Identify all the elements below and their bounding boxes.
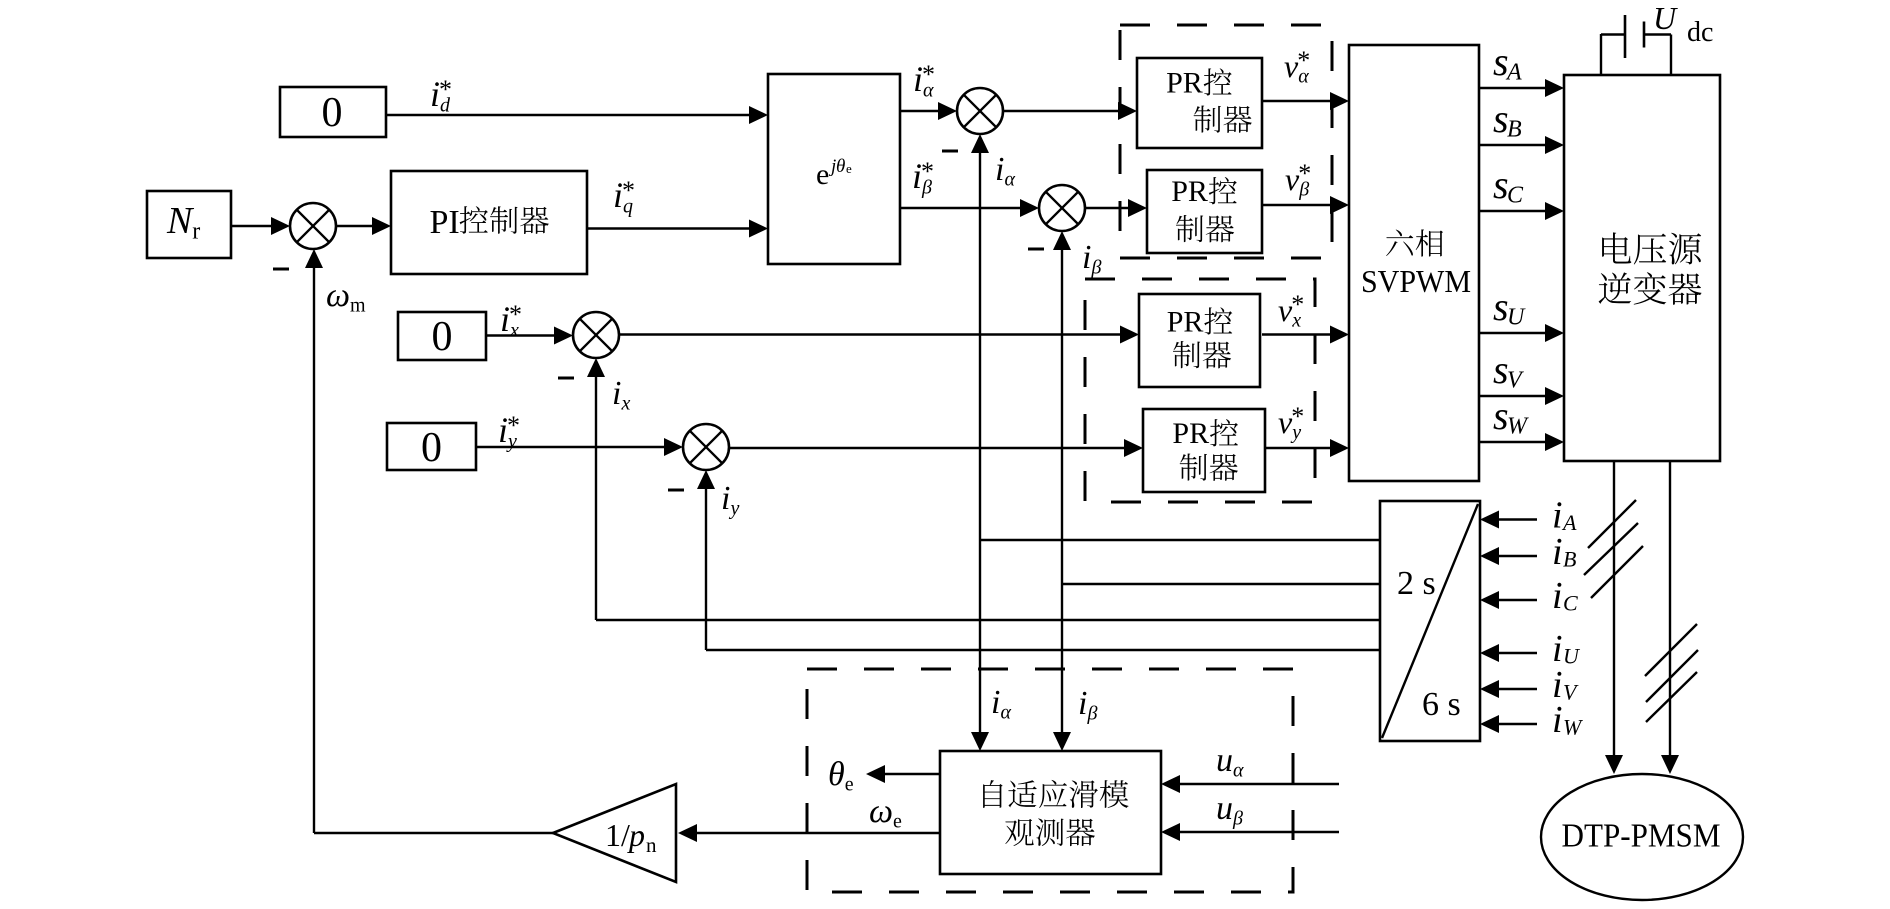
svg-text:i: i <box>1552 699 1563 741</box>
svg-text:θ: θ <box>828 756 845 793</box>
svg-text:0: 0 <box>432 314 453 360</box>
summing junction S1 speed error <box>290 203 336 249</box>
svg-text:A: A <box>1505 60 1522 86</box>
svg-text:ω: ω <box>869 793 893 830</box>
svg-text:U: U <box>1653 0 1678 36</box>
svg-text:N: N <box>166 200 195 242</box>
svg-text:i: i <box>1552 531 1563 573</box>
svg-text:DTP-PMSM: DTP-PMSM <box>1562 818 1721 855</box>
wire v_y* PR y to SVPWM <box>1266 439 1349 457</box>
node i_d* label <box>430 74 452 117</box>
svg-text:r: r <box>192 219 200 245</box>
node i_beta observer input label <box>1078 685 1098 725</box>
wire i_beta feedback from 2s/6s to vertical <box>1062 583 1380 585</box>
svg-text:p: p <box>627 817 645 853</box>
node u_beta label <box>1216 790 1243 830</box>
wire i_x feedback from 2s/6s to vertical <box>596 619 1380 621</box>
svg-text:*: * <box>1291 402 1304 431</box>
wire phase current i_A into 2s/6s block <box>1480 511 1537 529</box>
svg-text:i: i <box>1078 685 1087 722</box>
svg-text:m: m <box>350 295 366 317</box>
wire inverter second winding set to motor <box>1661 461 1679 774</box>
node i_alpha feedback label <box>995 151 1016 191</box>
svg-text:i: i <box>995 151 1004 188</box>
svg-text:A: A <box>1561 510 1577 535</box>
svg-text:α: α <box>1001 702 1012 724</box>
svg-text:0: 0 <box>421 425 442 471</box>
svg-text:PR: PR <box>1167 305 1204 338</box>
node i_x feedback label <box>612 375 631 415</box>
svg-text:i: i <box>721 480 730 517</box>
wire i_q* from PI controller to e^jtheta block <box>587 220 768 238</box>
node omega_m label <box>326 277 366 317</box>
wire phase current i_C into 2s/6s block <box>1480 591 1537 609</box>
svg-text:B: B <box>1563 547 1576 572</box>
svg-text:U: U <box>1507 305 1526 331</box>
svg-text:dc: dc <box>1687 17 1713 48</box>
svg-text:C: C <box>1507 183 1524 209</box>
wire i_x* zero block to summing junction S4 <box>486 327 573 345</box>
node i_W label <box>1552 699 1583 741</box>
node i_q* label <box>613 175 635 218</box>
wire gate signal s_A from SVPWM to inverter <box>1479 79 1564 97</box>
block Nr speed reference <box>147 191 231 258</box>
wire gate signal s_V from SVPWM to inverter <box>1479 387 1564 405</box>
wire S2 to PR controller alpha <box>1003 102 1137 120</box>
wire i_alpha feedback from 2s/6s to vertical <box>980 539 1380 541</box>
svg-text:PR: PR <box>1166 67 1203 100</box>
wire i_alpha* from e^jtheta to S2 <box>900 102 957 120</box>
minus sign at S5 <box>668 489 684 492</box>
block zero reference for i_y <box>387 423 476 471</box>
svg-text:1/: 1/ <box>605 817 630 853</box>
wire S5 to PR controller y <box>729 439 1143 457</box>
svg-text:W: W <box>1563 715 1583 740</box>
wire theta_e output from observer <box>866 765 940 783</box>
block e^jtheta_e park transform <box>768 74 900 264</box>
node omega_e label <box>869 793 902 833</box>
wire phase current i_U into 2s/6s block <box>1480 644 1537 662</box>
wire inverter first winding set to motor <box>1605 461 1623 774</box>
node s_U label <box>1493 284 1526 331</box>
svg-text:W: W <box>1507 414 1529 440</box>
minus sign at S3 <box>1028 248 1044 251</box>
svg-text:u: u <box>1216 742 1233 779</box>
node i_beta* label <box>912 156 934 199</box>
svg-text:u: u <box>1216 790 1233 827</box>
svg-text:ω: ω <box>326 277 350 314</box>
summing junction S3 beta-current error <box>1039 185 1085 231</box>
wire omega_e from observer to gain 1/p_n <box>678 824 940 842</box>
svg-text:i: i <box>612 375 621 412</box>
wire i_beta vertical up to S3 <box>1053 231 1071 584</box>
node U dc label <box>1653 0 1713 48</box>
wire v_alpha* PR alpha to SVPWM <box>1262 92 1349 110</box>
node v_x* label <box>1278 290 1304 332</box>
svg-text:*: * <box>921 157 934 186</box>
svg-text:U: U <box>1563 644 1581 669</box>
dashed group box for x-y PR controllers <box>1085 279 1315 502</box>
svg-text:*: * <box>922 60 935 89</box>
node v_beta* label <box>1285 159 1311 201</box>
wire i_beta vertical down to observer <box>1053 584 1071 751</box>
svg-text:e: e <box>846 161 852 176</box>
svg-text:0: 0 <box>322 90 343 136</box>
block PR controller y <box>1143 409 1265 492</box>
node i_y* label <box>498 410 520 453</box>
svg-text:β: β <box>1091 257 1102 279</box>
svg-text:*: * <box>507 411 520 440</box>
wire S4 to PR controller x <box>619 326 1139 344</box>
svg-text:x: x <box>621 393 631 415</box>
svg-text:V: V <box>1507 368 1524 394</box>
svg-text:n: n <box>646 833 657 857</box>
node i_y feedback label <box>721 480 740 520</box>
svg-text:θ: θ <box>836 156 845 177</box>
svg-text:PR: PR <box>1172 417 1209 450</box>
wire i_alpha vertical down to observer <box>971 540 989 751</box>
node s_C label <box>1493 162 1524 209</box>
svg-text:SVPWM: SVPWM <box>1361 263 1471 299</box>
svg-text:i: i <box>991 684 1000 721</box>
svg-text:α: α <box>1005 169 1016 191</box>
svg-text:6 s: 6 s <box>1422 686 1461 723</box>
svg-text:2 s: 2 s <box>1397 565 1436 602</box>
wire phase current i_W into 2s/6s block <box>1480 715 1537 733</box>
svg-text:i: i <box>1082 239 1091 276</box>
block 2s/6s coordinate transformation <box>1380 501 1480 741</box>
svg-text:*: * <box>622 176 635 205</box>
wire S3 to PR controller beta <box>1085 199 1147 217</box>
block PI controller <box>391 171 587 274</box>
block zero reference for i_x <box>398 312 486 360</box>
wire i_beta* from e^jtheta to S3 <box>900 199 1039 217</box>
block six-phase SVPWM <box>1349 45 1479 481</box>
summing junction S4 x-current error <box>573 312 619 358</box>
motor DTP-PMSM <box>1541 774 1743 900</box>
svg-text:i: i <box>1552 575 1563 617</box>
wire gate signal s_U from SVPWM to inverter <box>1479 324 1564 342</box>
block zero reference for i_d <box>280 87 386 137</box>
node i_A label <box>1552 495 1577 537</box>
svg-text:B: B <box>1507 117 1522 143</box>
svg-text:*: * <box>1291 290 1304 319</box>
slash marks three-phase on first motor line <box>1584 500 1643 598</box>
wire omega_m feedback from gain to S1 <box>305 249 553 833</box>
minus sign at S4 <box>558 377 574 380</box>
block PR controller x <box>1139 294 1260 387</box>
svg-text:β: β <box>1232 808 1243 830</box>
svg-text:e: e <box>816 158 829 191</box>
wire gate signal s_W from SVPWM to inverter <box>1479 433 1564 451</box>
gain block 1/p_n triangle <box>553 784 676 882</box>
block adaptive sliding-mode observer <box>940 751 1161 874</box>
wire i_y vertical up to S5 <box>697 470 715 650</box>
node s_B label <box>1493 96 1522 143</box>
svg-text:e: e <box>845 774 854 796</box>
node s_W label <box>1493 393 1529 440</box>
node i_U label <box>1552 628 1581 670</box>
dc-link battery symbol <box>1601 15 1671 75</box>
node v_alpha* label <box>1284 46 1310 88</box>
block PR controller beta <box>1147 170 1262 253</box>
svg-text:C: C <box>1563 591 1578 616</box>
node i_alpha observer input label <box>991 684 1012 724</box>
wire i_x vertical up to S4 <box>587 358 605 620</box>
svg-text:*: * <box>509 300 522 329</box>
node i_beta feedback label <box>1082 239 1102 279</box>
svg-text:α: α <box>1233 760 1244 782</box>
node i_V label <box>1552 664 1579 706</box>
wire S1 to PI controller <box>336 217 391 235</box>
node s_A label <box>1493 39 1522 86</box>
svg-text:*: * <box>1297 46 1310 75</box>
node u_alpha label <box>1216 742 1244 782</box>
minus sign at S2 <box>942 150 958 153</box>
node i_x* label <box>500 299 522 342</box>
node s_V label <box>1493 347 1524 394</box>
node i_alpha* label <box>913 59 935 102</box>
summing junction S5 y-current error <box>683 424 729 470</box>
node theta_e label <box>828 756 854 796</box>
wire v_x* PR x to SVPWM <box>1262 326 1349 344</box>
svg-text:PI: PI <box>430 204 460 241</box>
svg-text:y: y <box>729 498 740 520</box>
wire i_d* from zero block to e^jtheta block <box>386 106 768 124</box>
wire gate signal s_C from SVPWM to inverter <box>1479 202 1564 220</box>
block voltage source inverter <box>1564 75 1720 461</box>
minus sign at S1 <box>273 268 289 271</box>
wire phase current i_B into 2s/6s block <box>1480 547 1537 565</box>
node i_C label <box>1552 575 1578 617</box>
node i_B label <box>1552 531 1576 573</box>
wire Nr to summing junction S1 <box>231 217 290 235</box>
wire u_alpha into observer <box>1161 775 1339 793</box>
wire gate signal s_B from SVPWM to inverter <box>1479 136 1564 154</box>
wire i_alpha vertical up to S2 <box>971 134 989 540</box>
wire u_beta into observer <box>1161 823 1339 841</box>
wire phase current i_V into 2s/6s block <box>1480 680 1537 698</box>
svg-text:PR: PR <box>1171 175 1208 208</box>
dashed group box adaptive sliding-mode observer <box>807 669 1293 892</box>
node v_y* label <box>1278 402 1304 444</box>
summing junction S2 alpha-current error <box>957 88 1003 134</box>
svg-text:β: β <box>1087 703 1098 725</box>
slash marks three-phase on second motor line <box>1645 624 1698 722</box>
svg-text:*: * <box>1298 159 1311 188</box>
svg-text:e: e <box>893 811 902 833</box>
wire v_beta* PR beta to SVPWM <box>1263 196 1349 214</box>
dashed group box for alpha-beta PR controllers <box>1120 25 1332 258</box>
block PR controller alpha <box>1137 58 1262 148</box>
svg-text:*: * <box>439 75 452 104</box>
wire i_y* zero block to summing junction S5 <box>476 438 683 456</box>
wire i_y feedback from 2s/6s to vertical <box>706 649 1380 651</box>
